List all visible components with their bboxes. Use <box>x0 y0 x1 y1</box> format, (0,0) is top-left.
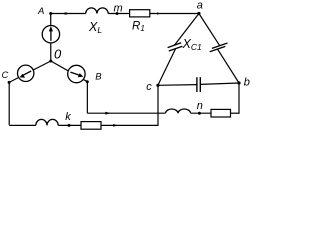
wire C down <box>8 82 10 125</box>
inductor in line B <box>166 109 191 113</box>
svg-text:C: C <box>2 70 9 81</box>
node n <box>198 112 201 115</box>
capacitor C_ab plate 1 <box>212 43 228 48</box>
node k <box>68 124 71 127</box>
node A junction <box>49 12 52 15</box>
source E_C circle <box>18 65 34 81</box>
current arrow on line B wire <box>105 112 110 115</box>
wire resistor to riser b <box>231 112 240 114</box>
source E_B arrow <box>70 72 79 75</box>
node a junction <box>197 12 200 15</box>
current arrow on wire A-XL <box>65 12 71 15</box>
node c junction <box>156 84 159 87</box>
wire A-phase vertical <box>50 14 52 62</box>
svg-text:A: A <box>37 6 44 17</box>
wire coil to k <box>58 124 81 126</box>
riser to c <box>157 85 159 126</box>
delta side a-c lower wire <box>158 49 176 86</box>
svg-text:k: k <box>65 111 71 123</box>
source E_C arrow <box>23 71 31 75</box>
capacitor C_cb plate 2 <box>199 77 201 92</box>
current arrow on wire R1-a <box>157 12 161 14</box>
resistor R1 <box>130 10 150 17</box>
delta side c-b left wire <box>158 84 197 87</box>
source E_A circle <box>42 26 59 43</box>
capacitor C_ac plate 1 <box>168 43 182 48</box>
delta side c-b right wire <box>200 83 239 84</box>
current arrow on line C wire <box>113 124 118 127</box>
wire R1 to a <box>150 13 199 15</box>
capacitor C_cb plate 1 <box>196 77 198 92</box>
delta side a-b upper wire <box>199 14 220 46</box>
wire B horizontal <box>87 112 165 114</box>
wire A to X_L <box>51 13 86 15</box>
wire O to B <box>51 61 88 82</box>
wire X_L to R1 <box>108 13 129 15</box>
svg-text:a: a <box>197 0 203 11</box>
node C junction <box>8 81 11 84</box>
delta side a-c upper wire <box>174 14 199 46</box>
delta side a-b lower wire <box>218 49 240 83</box>
inductor X_L <box>86 8 109 14</box>
inductor in line C <box>36 119 58 125</box>
wire resistor to riser <box>101 124 158 126</box>
wire coil to resistor <box>191 112 211 114</box>
capacitor C_ac plate 2 <box>169 46 183 51</box>
wire C bottom left <box>9 124 36 126</box>
svg-text:B: B <box>95 71 102 82</box>
source E_B circle <box>68 65 85 82</box>
resistor in line B <box>211 109 231 117</box>
svg-text:b: b <box>244 77 250 89</box>
node B junction <box>86 80 89 83</box>
wire B down <box>86 82 88 114</box>
node b junction <box>237 81 240 84</box>
node O junction <box>49 60 52 63</box>
svg-text:m: m <box>114 2 123 14</box>
svg-text:n: n <box>197 100 203 112</box>
svg-text:0: 0 <box>54 46 62 61</box>
capacitor C_ab plate 2 <box>210 46 226 51</box>
svg-text:c: c <box>146 81 152 93</box>
wire O to C <box>9 61 51 82</box>
resistor in line C <box>81 122 101 130</box>
riser to b <box>238 83 240 114</box>
node m <box>116 12 119 15</box>
source E_A arrow <box>50 30 52 41</box>
